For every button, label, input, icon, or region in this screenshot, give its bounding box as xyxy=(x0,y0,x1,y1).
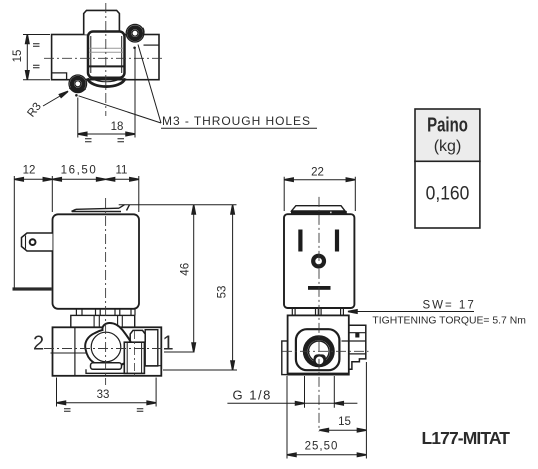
dimension line 12/16,50/11 xyxy=(14,178,139,180)
table header cell xyxy=(415,109,480,161)
internal seat line xyxy=(51,352,118,354)
pilot tube inner walls xyxy=(127,342,141,373)
washer top-right thick ring xyxy=(129,27,141,39)
washer top-right outer circle xyxy=(126,24,144,42)
connector slot right xyxy=(335,230,339,252)
M3 leader line to top-right hole xyxy=(138,45,161,124)
right fitting bottom line xyxy=(145,365,161,367)
pilot tube xyxy=(124,342,144,373)
SW17 leader line xyxy=(348,311,474,313)
coil cap upper plate xyxy=(292,206,346,211)
coil cap lower plate dark bar left xyxy=(291,211,330,214)
valve body side view xyxy=(53,327,162,376)
lower spade tab edge-on xyxy=(13,287,52,290)
coil cap lower plate outline xyxy=(291,213,348,215)
svg-text:(kg): (kg) xyxy=(434,138,462,155)
svg-text:15: 15 xyxy=(12,50,24,63)
dimension 53 line xyxy=(232,205,234,370)
equal marks below 18 xyxy=(85,139,124,142)
equal marks beside 15 xyxy=(33,44,40,68)
washer bottom-left seat arc xyxy=(70,88,86,92)
dimension 18 extension lines xyxy=(78,49,135,138)
port inner circle xyxy=(309,341,330,362)
dot below top-right washer xyxy=(133,47,136,50)
front view vertical centerline xyxy=(318,197,320,432)
right fitting step lines xyxy=(342,333,366,354)
leader line to 46/53 dims xyxy=(119,204,237,206)
coil cap lower plate dark bar right xyxy=(332,211,347,214)
washer top-right screw hole xyxy=(132,30,138,36)
dimension 46 line xyxy=(193,205,195,352)
top view bottom thin arc xyxy=(89,78,124,82)
front coil bottom tabs xyxy=(292,308,343,315)
body left port section line xyxy=(74,327,76,376)
svg-text:46: 46 xyxy=(180,263,192,276)
internal valve blob xyxy=(85,323,134,367)
blob lower base xyxy=(86,369,126,373)
rounded boss around port xyxy=(296,329,340,370)
svg-text:12: 12 xyxy=(23,165,36,177)
internal blob inner circle xyxy=(91,332,121,362)
front bottom extension lines xyxy=(287,362,366,459)
svg-text:1: 1 xyxy=(162,333,173,355)
body bottom thick edge xyxy=(288,373,349,375)
dimension 46 extension line xyxy=(164,351,195,353)
plate left tick xyxy=(72,209,77,211)
top view bottom thick arc xyxy=(87,78,125,86)
top view horizontal centerline xyxy=(44,57,165,59)
right fitting front view outline xyxy=(349,325,366,369)
plate right hook xyxy=(119,205,130,211)
top view right section inner line xyxy=(144,44,160,46)
top view body outline xyxy=(52,35,159,80)
washer bottom-left screw hole xyxy=(75,81,81,87)
right fitting notch xyxy=(355,333,359,338)
pilot tube centerline xyxy=(133,331,135,379)
dimension 33 line xyxy=(57,402,157,404)
dimension 22 line xyxy=(284,179,355,181)
dimension 15 line xyxy=(26,35,28,80)
dimension 33 extension lines xyxy=(57,378,157,407)
table value cell xyxy=(415,161,480,228)
flange inner lines xyxy=(94,315,122,327)
front view horizontal centerline xyxy=(282,350,369,352)
connector screw xyxy=(313,256,324,267)
spade connector tab xyxy=(22,233,53,251)
coil body side view xyxy=(53,214,140,308)
svg-text:11: 11 xyxy=(116,165,128,177)
top view mounting boss (square at top) xyxy=(84,10,120,34)
svg-text:SW= 17: SW= 17 xyxy=(423,300,476,312)
G 1/8 extension lines xyxy=(305,376,335,408)
dimension 53 extension line xyxy=(163,369,237,371)
dimension 22 extension lines xyxy=(284,177,355,211)
svg-text:R3: R3 xyxy=(25,101,44,120)
valve body front view xyxy=(288,315,349,374)
top view coil tube rounded square xyxy=(88,32,125,78)
side view vertical centerline xyxy=(105,198,107,385)
dot below bottom-left washer xyxy=(75,94,78,97)
svg-text:G 1/8: G 1/8 xyxy=(233,388,272,403)
nut above pilot tube xyxy=(130,330,145,342)
R3 leader arrow xyxy=(43,93,66,107)
spade tab fold line xyxy=(25,236,27,249)
small pilot square xyxy=(314,355,325,365)
top view vertical centerline xyxy=(105,3,107,116)
svg-text:L177-MITAT: L177-MITAT xyxy=(422,428,511,448)
right fitting side view xyxy=(145,330,158,366)
svg-text:18: 18 xyxy=(111,121,124,133)
svg-text:16,50: 16,50 xyxy=(61,165,98,177)
svg-text:0,160: 0,160 xyxy=(426,182,470,204)
top view bottom-left step notch xyxy=(52,73,67,80)
washer bottom-left outer circle xyxy=(69,75,87,93)
spade tab hole xyxy=(30,239,36,245)
tube inner wall lines xyxy=(91,36,122,73)
dimensions 12 16,50 11 extension lines xyxy=(14,176,139,290)
svg-text:15: 15 xyxy=(338,416,351,428)
washer bottom-left thick ring xyxy=(72,78,84,90)
left ear xyxy=(282,341,288,375)
svg-text:25,50: 25,50 xyxy=(305,441,339,453)
port thread outer ring xyxy=(305,338,332,365)
svg-text:33: 33 xyxy=(97,389,110,401)
dimension 18 line xyxy=(78,133,135,135)
svg-text:53: 53 xyxy=(217,286,229,299)
coil bottom tabs xyxy=(76,309,135,315)
connector slot left xyxy=(298,230,302,252)
M3 label underline xyxy=(161,127,317,129)
coil top plate xyxy=(72,208,121,211)
svg-text:Paino: Paino xyxy=(427,113,468,136)
svg-text:22: 22 xyxy=(311,167,324,179)
dimension 25,50 line xyxy=(287,454,366,456)
svg-text:TIGHTENING TORQUE= 5.7 Nm: TIGHTENING TORQUE= 5.7 Nm xyxy=(372,316,525,327)
blob base plate xyxy=(91,363,122,370)
armature tube flange xyxy=(71,315,135,327)
top view dark flat line xyxy=(88,65,124,67)
dimension 15 line (front) xyxy=(319,429,366,431)
coil body front view xyxy=(284,214,354,308)
washer top-right split tail xyxy=(143,28,144,36)
side view horizontal centerline xyxy=(44,348,170,350)
top view nut flat lines (light) xyxy=(89,48,124,52)
connector horizontal slot xyxy=(308,286,331,290)
small pilot circle xyxy=(315,356,325,366)
svg-text:2: 2 xyxy=(33,333,44,355)
dimension 15 extension lines xyxy=(23,35,50,80)
svg-text:M3 - THROUGH HOLES: M3 - THROUGH HOLES xyxy=(162,114,311,128)
equal marks below 33 xyxy=(64,409,143,412)
G 1/8 leader line xyxy=(227,402,357,404)
M3 leader line to bottom-left hole xyxy=(79,96,162,123)
